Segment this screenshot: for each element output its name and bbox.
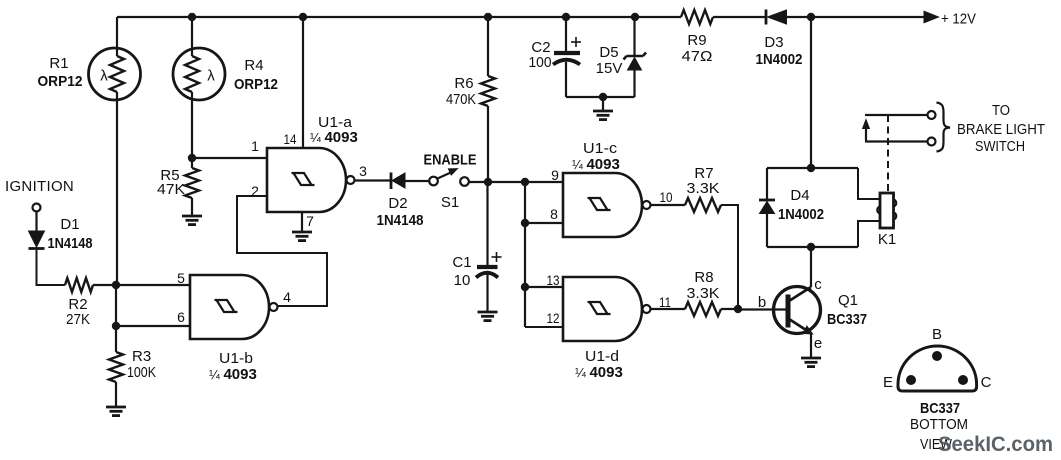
svg-text:BC337: BC337 <box>827 311 867 328</box>
node junction top rail at D5 <box>631 13 639 21</box>
node junction pin6/R3 <box>112 322 120 330</box>
svg-text:D2: D2 <box>388 195 407 212</box>
wire R2 to junction <box>93 284 116 286</box>
wire S1 to U1-c pin 9 <box>469 181 563 183</box>
svg-text:14: 14 <box>284 131 297 147</box>
terminal brake switch bottom <box>928 138 936 146</box>
svg-text:5: 5 <box>177 270 185 286</box>
svg-text:R8: R8 <box>694 269 713 286</box>
ground pin 7 U1-a <box>292 231 312 234</box>
wire collector <box>810 247 812 287</box>
svg-text:1N4148: 1N4148 <box>377 212 424 229</box>
resistor R5 47K <box>191 158 193 168</box>
svg-text:+ 12V: + 12V <box>941 11 976 28</box>
node junction pin 8 <box>521 219 529 227</box>
svg-text:12: 12 <box>547 310 560 326</box>
op-amp U1-c Schmitt NAND gate 1/4 4093 <box>563 173 642 237</box>
svg-text:9: 9 <box>551 167 559 183</box>
node junction top rail at R6 <box>484 13 492 21</box>
svg-text:3: 3 <box>359 163 367 179</box>
svg-text:U1-b: U1-b <box>219 350 253 367</box>
svg-text:47K: 47K <box>157 181 185 198</box>
svg-text:U1-c: U1-c <box>583 140 618 157</box>
svg-text:3.3K: 3.3K <box>687 285 720 302</box>
svg-text:R9: R9 <box>687 32 706 49</box>
svg-text:¼ 4093: ¼ 4093 <box>575 364 623 381</box>
pin 14 wire U1-a <box>302 17 304 148</box>
switch S1 ENABLE <box>429 177 438 186</box>
svg-text:Q1: Q1 <box>838 292 858 309</box>
svg-text:SWITCH: SWITCH <box>975 138 1025 155</box>
node junction collector <box>807 243 815 251</box>
wire D3 junction down to relay loop <box>810 17 812 168</box>
wire pin 13 input <box>525 286 563 288</box>
diode D3 1N4002 <box>765 10 768 25</box>
svg-text:D5: D5 <box>599 44 618 61</box>
diode D5 zener 15V <box>633 17 635 55</box>
svg-text:¼ 4093: ¼ 4093 <box>572 156 620 173</box>
transistor Q1 BC337 NPN <box>774 287 821 334</box>
svg-text:1N4148: 1N4148 <box>48 235 93 252</box>
svg-text:c: c <box>814 276 822 293</box>
terminal IGNITION input <box>33 204 41 212</box>
capacitor C1 10 electrolytic <box>486 182 488 265</box>
capacitor C2 100 electrolytic <box>565 17 567 51</box>
svg-text:7: 7 <box>306 213 314 229</box>
node junction R1/R2/pin5 <box>112 281 120 289</box>
svg-text:10: 10 <box>660 189 673 205</box>
svg-text:¼ 4093: ¼ 4093 <box>209 366 257 383</box>
node junction top rail at D3/K1 <box>807 13 815 21</box>
wire contact arrow <box>865 127 867 141</box>
svg-text:E: E <box>883 374 893 391</box>
wire D4/K1 loop top <box>767 167 858 169</box>
svg-text:ENABLE: ENABLE <box>424 152 477 169</box>
wire pin 1 input <box>192 157 267 159</box>
svg-text:470K: 470K <box>446 91 476 108</box>
op-amp U1-d Schmitt NAND gate 1/4 4093 <box>563 277 642 341</box>
svg-text:TO: TO <box>992 102 1010 119</box>
svg-text:ORP12: ORP12 <box>234 76 278 93</box>
svg-text:e: e <box>814 335 822 352</box>
svg-text:λ: λ <box>100 68 108 85</box>
svg-text:R1: R1 <box>49 55 68 72</box>
svg-text:BC337: BC337 <box>920 400 960 417</box>
svg-text:1N4002: 1N4002 <box>778 206 824 223</box>
svg-text:6: 6 <box>177 309 185 325</box>
svg-text:1: 1 <box>251 138 259 154</box>
pin 10 output wire U1-c <box>651 204 686 206</box>
svg-text:4: 4 <box>283 289 291 305</box>
svg-text:SeekIC.com: SeekIC.com <box>938 432 1053 456</box>
wire R8 to junction <box>721 308 738 310</box>
wire D4/K1 loop bottom <box>767 246 858 248</box>
wire R7 down to junction <box>721 205 738 309</box>
wire top supply rail <box>117 16 681 18</box>
ground below Q1 emitter <box>801 357 821 360</box>
svg-text:S1: S1 <box>441 194 459 211</box>
node junction top of D4 loop <box>807 164 815 172</box>
wire junction down <box>115 285 117 326</box>
svg-text:b: b <box>758 294 766 311</box>
wire brake light switch contacts <box>865 114 928 116</box>
relay coil K1 <box>880 193 894 228</box>
diagram BC337 bottom view package <box>898 346 977 391</box>
pin 3 output wire U1-a <box>355 179 392 181</box>
svg-text:8: 8 <box>550 206 558 222</box>
svg-text:ORP12: ORP12 <box>38 73 83 90</box>
svg-text:1N4002: 1N4002 <box>756 51 803 68</box>
svg-text:U1-d: U1-d <box>585 348 619 365</box>
diode D1 1N4148 <box>35 212 37 232</box>
node +12V arrowhead and label <box>924 11 939 23</box>
wire feedback U1-b output to U1-a pin 2 <box>237 196 327 306</box>
svg-text:R4: R4 <box>244 57 263 74</box>
brace to brake light switch <box>937 103 951 152</box>
pin B dot <box>932 351 942 361</box>
op-amp U1-b Schmitt NAND gate 1/4 4093 <box>190 275 269 339</box>
terminal brake switch top <box>928 111 936 119</box>
svg-text:47Ω: 47Ω <box>682 48 713 65</box>
svg-text:K1: K1 <box>878 231 896 248</box>
node junction R6/C1 line <box>484 178 492 186</box>
diode D2 1N4148 <box>390 173 393 190</box>
svg-text:27K: 27K <box>66 311 90 328</box>
wire K1 right branch <box>858 168 880 199</box>
pin E dot <box>906 375 916 385</box>
resistor R7 3.3K <box>685 198 721 212</box>
svg-text:D4: D4 <box>790 187 809 204</box>
ground below C2/D5 <box>602 97 604 110</box>
svg-text:R3: R3 <box>132 348 151 365</box>
node junction ground C2/D5 <box>599 93 607 101</box>
svg-text:11: 11 <box>659 294 671 310</box>
svg-text:13: 13 <box>547 272 560 288</box>
wire C2/D5 bottom <box>566 96 635 98</box>
svg-text:3.3K: 3.3K <box>687 180 720 197</box>
node junction R7/R8/base <box>734 305 742 313</box>
op-amp U1-a Schmitt NAND gate 1/4 4093 <box>267 148 346 212</box>
node junction top rail at pin14 <box>299 13 307 21</box>
diode D4 1N4002 <box>759 199 775 202</box>
svg-text:R6: R6 <box>454 75 473 92</box>
wire pin 5 input U1-b <box>116 284 190 286</box>
svg-text:C1: C1 <box>452 254 471 271</box>
ground below R5 <box>182 215 202 218</box>
svg-text:10: 10 <box>454 272 471 289</box>
pin 7 wire U1-a <box>301 212 303 231</box>
resistor R3 100K <box>115 326 117 352</box>
resistor R2 27K <box>65 278 93 292</box>
resistor R9 47 ohm <box>681 10 713 24</box>
svg-text:¼ 4093: ¼ 4093 <box>310 129 358 146</box>
svg-text:B: B <box>932 326 942 343</box>
svg-text:D1: D1 <box>60 216 79 233</box>
wire emitter to ground <box>810 332 812 357</box>
svg-text:100: 100 <box>529 54 552 71</box>
wire inputs bus down <box>524 182 526 327</box>
pin C dot <box>958 375 968 385</box>
wire D1 to R2 <box>37 250 66 285</box>
ground below R3 <box>106 406 126 409</box>
ground below C1 <box>478 311 498 314</box>
pin 11 output wire U1-d <box>651 308 686 310</box>
wire pin 8 input <box>525 222 563 224</box>
wire pin 6 input U1-b <box>116 325 190 327</box>
node junction top rail at C2 <box>562 13 570 21</box>
label C1 plus <box>492 256 502 258</box>
wire to Q1 base <box>738 308 786 310</box>
svg-text:λ: λ <box>207 68 215 85</box>
wire D4 left branch <box>766 168 768 199</box>
label C2 plus <box>571 41 581 43</box>
svg-text:100K: 100K <box>127 364 156 381</box>
svg-text:IGNITION: IGNITION <box>5 178 74 195</box>
svg-text:D3: D3 <box>764 34 783 51</box>
node junction inputs line <box>521 178 529 186</box>
wire pin 12 input <box>525 326 563 328</box>
resistor R1 ORP12 light dependent resistor <box>116 17 118 56</box>
resistor R6 470K <box>487 17 489 76</box>
svg-text:15V: 15V <box>596 60 623 77</box>
wire dashed mechanical link K1 <box>887 115 889 192</box>
svg-text:C: C <box>981 374 992 391</box>
node junction top rail at R4 <box>188 13 196 21</box>
node junction pin 13 <box>521 283 529 291</box>
resistor R4 ORP12 light dependent resistor <box>191 17 193 56</box>
svg-text:BOTTOM: BOTTOM <box>910 416 968 433</box>
svg-text:BRAKE LIGHT: BRAKE LIGHT <box>957 121 1045 138</box>
resistor R8 3.3K <box>685 302 721 316</box>
node junction R4/R5/pin1 <box>188 154 196 162</box>
